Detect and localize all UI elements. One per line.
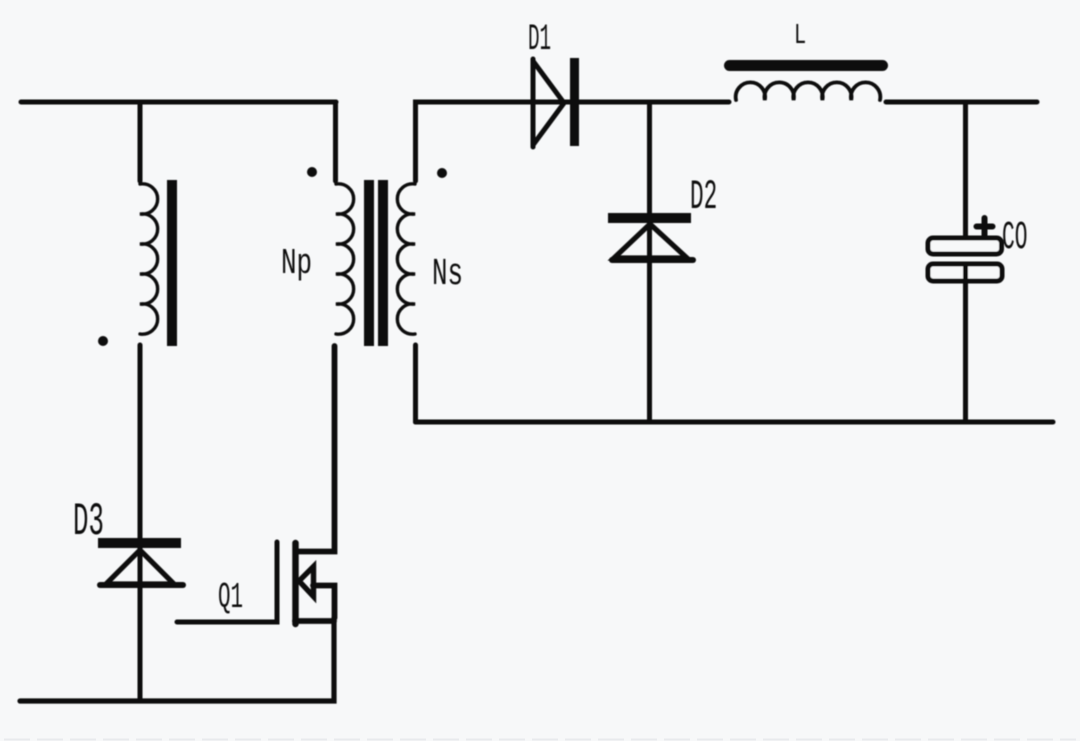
polarity dot (Ns): [437, 168, 447, 178]
svg-text:D3: D3: [73, 497, 104, 549]
transistor Q1 source stub: [295, 618, 334, 624]
winding Nr (reset winding coil): [140, 184, 158, 334]
wire: primary bottom bus: [20, 618, 334, 701]
diode D2 triangle: [614, 224, 687, 258]
transistor Q1 body stub: [313, 586, 335, 619]
wire: Q1 gate lead: [177, 542, 277, 622]
transistor Q1 body arrow: [299, 567, 314, 597]
svg-text:L: L: [794, 19, 806, 53]
capacitor C0 top plate: [928, 238, 1002, 254]
reset winding core bar: [167, 180, 177, 346]
wire: reset winding top lead: [138, 102, 143, 181]
diode D3 triangle: [106, 550, 174, 584]
diode D3 base line: [100, 582, 183, 588]
svg-text:Ns: Ns: [432, 252, 463, 295]
diode D2 base line: [612, 257, 693, 263]
wire: reset winding bottom lead through D3 to bottom bus: [138, 345, 143, 701]
transistor Q1 drain stub and lead to Np: [298, 346, 335, 552]
wire: Np top lead: [333, 102, 338, 181]
wire: primary top bus: [21, 100, 336, 105]
wire: C0 top lead: [963, 102, 968, 240]
wire: secondary bottom bus: [416, 420, 1054, 425]
diode D1 triangle: [533, 59, 564, 147]
svg-text:Np: Np: [281, 244, 312, 284]
diode D1 cathode bar: [570, 58, 579, 146]
svg-text:D2: D2: [690, 174, 717, 221]
wire: D2 branch: [647, 102, 652, 422]
polarity dot (Np): [307, 167, 317, 177]
wire: Ns bottom lead: [413, 345, 418, 422]
svg-text:CO: CO: [1002, 214, 1027, 260]
wire: Ns top lead and secondary top rail: [416, 102, 730, 181]
transistor Q1 channel bar: [292, 543, 299, 624]
winding Np coil: [336, 184, 354, 334]
transformer core bar 2: [378, 180, 388, 346]
wire: C0 bottom lead: [963, 266, 968, 422]
diode D2 cathode bar: [608, 213, 691, 223]
winding Ns coil: [397, 184, 415, 334]
svg-text:Q1: Q1: [218, 578, 243, 618]
wire: top rail from L to output: [886, 100, 1037, 105]
inductor L coil: [736, 82, 881, 100]
capacitor C0 plus sign: [977, 218, 993, 238]
capacitor C0 bottom plate: [928, 264, 1002, 281]
svg-text:D1: D1: [528, 18, 551, 61]
bottom edge artifact line: [4, 739, 1076, 741]
polarity dot (reset winding): [98, 336, 108, 346]
transformer core bar 1: [364, 180, 374, 346]
diode D3 cathode bar: [98, 538, 181, 548]
inductor L core bar: [730, 60, 883, 71]
